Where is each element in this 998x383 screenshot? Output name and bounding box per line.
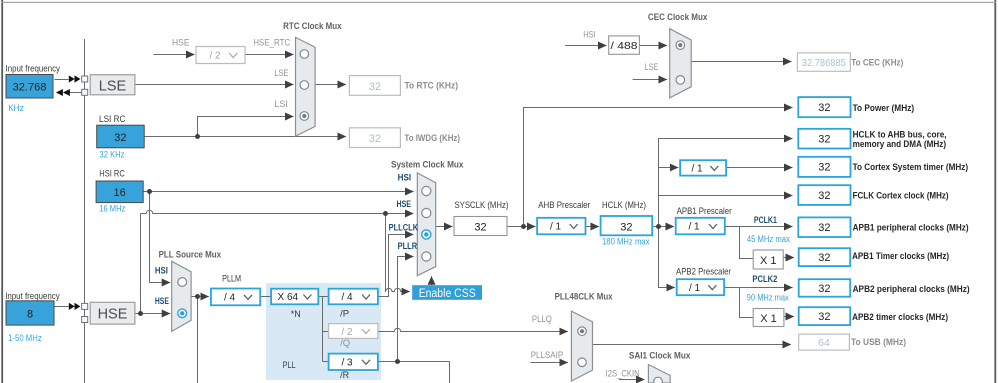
svg-text:To RTC (KHz): To RTC (KHz): [405, 81, 459, 92]
svg-text:/P: /P: [340, 308, 349, 319]
svg-text:HSE: HSE: [172, 37, 190, 48]
svg-text:90 MHz max: 90 MHz max: [747, 293, 789, 304]
svg-text:LSI RC: LSI RC: [99, 114, 126, 125]
svg-text:32.786885: 32.786885: [802, 57, 846, 69]
svg-text:LSE: LSE: [99, 78, 127, 94]
svg-text:X 1: X 1: [760, 255, 777, 267]
svg-text:PLLR: PLLR: [398, 241, 418, 252]
svg-text:Enable CSS: Enable CSS: [419, 288, 476, 300]
svg-text:32: 32: [818, 190, 830, 202]
svg-text:32: 32: [818, 162, 830, 174]
svg-text:PLLQ: PLLQ: [532, 314, 552, 325]
svg-text:FCLK Cortex clock (MHz): FCLK Cortex clock (MHz): [853, 191, 949, 202]
svg-text:32: 32: [369, 133, 381, 145]
svg-text:CEC Clock Mux: CEC Clock Mux: [648, 12, 708, 23]
svg-text:/ 1: / 1: [692, 164, 704, 175]
svg-text:32.768: 32.768: [13, 82, 47, 94]
svg-text:/ 1: / 1: [689, 222, 701, 233]
svg-text:HCLK (MHz): HCLK (MHz): [602, 200, 646, 211]
svg-text:HSE_RTC: HSE_RTC: [253, 37, 290, 48]
svg-text:PLL Source Mux: PLL Source Mux: [159, 250, 222, 261]
svg-text:HSE: HSE: [98, 306, 128, 322]
svg-text:PLLCLK: PLLCLK: [389, 222, 419, 233]
svg-text:System Clock Mux: System Clock Mux: [391, 159, 464, 170]
svg-text:AHB Prescaler: AHB Prescaler: [538, 200, 590, 211]
svg-text:/R: /R: [340, 370, 349, 381]
svg-text:/ 2: / 2: [342, 327, 354, 338]
svg-text:32: 32: [818, 252, 830, 264]
svg-text:/ 3: / 3: [342, 358, 354, 369]
svg-text:PCLK2: PCLK2: [752, 274, 777, 285]
svg-text:PLL48CLK Mux: PLL48CLK Mux: [555, 291, 614, 302]
svg-text:64: 64: [818, 337, 830, 349]
svg-text:To Cortex System timer (MHz): To Cortex System timer (MHz): [853, 162, 969, 173]
svg-text:PLLM: PLLM: [222, 274, 241, 285]
svg-text:APB1 Timer clocks (MHz): APB1 Timer clocks (MHz): [852, 251, 949, 262]
svg-text:16: 16: [113, 187, 125, 199]
svg-text:180 MHz max: 180 MHz max: [602, 236, 650, 247]
svg-text:HSI: HSI: [583, 29, 596, 40]
svg-text:32: 32: [620, 222, 632, 234]
svg-text:PLL: PLL: [283, 360, 296, 371]
svg-text:32: 32: [114, 132, 126, 144]
svg-text:8: 8: [27, 309, 33, 321]
svg-text:RTC Clock Mux: RTC Clock Mux: [283, 21, 342, 32]
svg-text:Input frequency: Input frequency: [6, 63, 61, 74]
svg-text:APB2 Prescaler: APB2 Prescaler: [676, 267, 731, 278]
svg-text:/Q: /Q: [340, 338, 350, 349]
svg-text:/ 4: / 4: [224, 292, 236, 303]
svg-text:APB2 timer clocks (MHz): APB2 timer clocks (MHz): [852, 312, 948, 323]
svg-text:HSE: HSE: [397, 199, 412, 210]
svg-text:/ 1: / 1: [689, 283, 701, 294]
svg-text:/ 488: / 488: [611, 40, 638, 52]
svg-text:KHz: KHz: [8, 103, 24, 114]
svg-text:PCLK1: PCLK1: [754, 215, 778, 226]
svg-text:32: 32: [818, 311, 830, 323]
svg-text:LSE: LSE: [645, 62, 659, 73]
svg-text:32: 32: [369, 81, 381, 93]
svg-text:*N: *N: [291, 309, 301, 320]
svg-text:Input frequency: Input frequency: [5, 291, 60, 302]
svg-text:PLLSAIP: PLLSAIP: [531, 350, 564, 361]
svg-text:APB2 peripheral clocks (MHz): APB2 peripheral clocks (MHz): [853, 284, 970, 295]
svg-text:SAI1 Clock Mux: SAI1 Clock Mux: [629, 350, 691, 361]
svg-text:/ 1: / 1: [550, 222, 562, 233]
svg-text:X 64: X 64: [278, 292, 299, 303]
svg-text:APB1 peripheral clocks (MHz): APB1 peripheral clocks (MHz): [853, 222, 969, 233]
svg-text:32: 32: [818, 134, 830, 146]
svg-text:32: 32: [818, 283, 830, 295]
svg-text:45 MHz max: 45 MHz max: [747, 234, 790, 245]
svg-text:APB1 Prescaler: APB1 Prescaler: [677, 206, 732, 217]
svg-text:To CEC (KHz): To CEC (KHz): [851, 57, 903, 68]
svg-text:To USB (MHz): To USB (MHz): [851, 337, 906, 348]
svg-text:To IWDG (KHz): To IWDG (KHz): [405, 133, 461, 144]
svg-text:LSI: LSI: [274, 99, 288, 110]
svg-text:32: 32: [818, 222, 830, 234]
svg-text:HSI: HSI: [398, 172, 412, 183]
svg-text:HSE: HSE: [155, 296, 169, 307]
svg-text:I2S_CKIN: I2S_CKIN: [606, 368, 640, 379]
svg-text:HSI RC: HSI RC: [99, 168, 125, 179]
svg-text:X 1: X 1: [760, 313, 777, 325]
svg-text:SYSCLK (MHz): SYSCLK (MHz): [455, 200, 509, 211]
svg-text:To Power (MHz): To Power (MHz): [853, 103, 915, 114]
svg-text:/ 2: / 2: [210, 51, 222, 62]
svg-text:LSE: LSE: [274, 68, 288, 79]
svg-text:HSI: HSI: [155, 265, 168, 276]
svg-text:1-50 MHz: 1-50 MHz: [8, 333, 42, 344]
svg-text:32 KHz: 32 KHz: [100, 149, 125, 160]
svg-text:16 MHz: 16 MHz: [99, 203, 125, 214]
svg-text:memory and DMA (MHz): memory and DMA (MHz): [853, 139, 947, 150]
svg-text:/ 4: / 4: [342, 292, 354, 303]
svg-text:32: 32: [818, 102, 830, 114]
svg-text:32: 32: [474, 222, 486, 234]
